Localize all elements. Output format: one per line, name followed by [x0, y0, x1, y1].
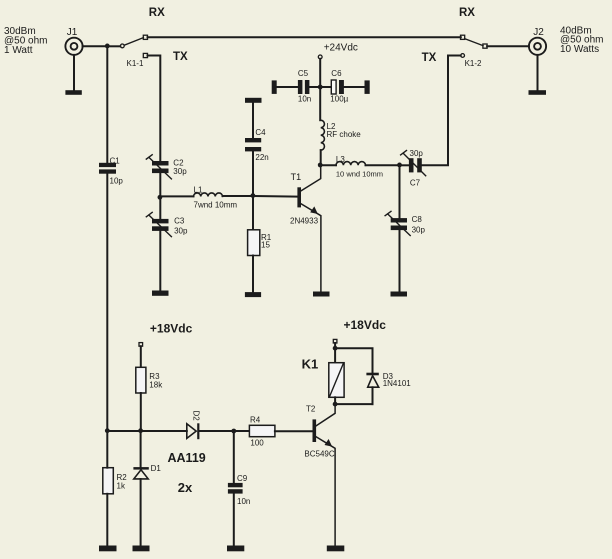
svg-text:BC549C: BC549C [304, 449, 334, 458]
switch K1-2 arm [465, 39, 483, 46]
svg-text:15: 15 [261, 240, 270, 249]
svg-text:10 Watts: 10 Watts [560, 44, 599, 55]
svg-text:1k: 1k [117, 482, 126, 491]
resistor R1 [248, 230, 260, 256]
wire node A to K1-1 common [107, 45, 120, 47]
switch K1-1 TX contact [143, 53, 147, 57]
svg-text:L3: L3 [336, 155, 345, 164]
wire node A to C1 [106, 46, 108, 163]
wire C5 to node D [309, 86, 320, 88]
svg-text:AA119: AA119 [168, 451, 206, 465]
wire node G to node H [107, 430, 140, 432]
wire node B to L1 [160, 195, 193, 197]
svg-text:C4: C4 [255, 128, 266, 137]
wire RX rail [148, 36, 461, 38]
svg-text:C7: C7 [410, 179, 421, 188]
ground under J2 [529, 90, 547, 95]
wire J2 to ground [537, 55, 539, 91]
wire node D to L2 [319, 87, 321, 120]
wire L1 to node C [223, 195, 253, 197]
node B junction [158, 195, 163, 200]
svg-text:T1: T1 [291, 172, 302, 182]
wire D2 to node I [199, 430, 233, 432]
ground above C4 [245, 98, 262, 103]
node K junction [333, 402, 338, 407]
wire R1 to ground [252, 256, 254, 293]
inductor L1 [194, 193, 223, 196]
inductor L2 [321, 120, 325, 150]
svg-text:+24Vdc: +24Vdc [324, 42, 358, 53]
svg-text:+18Vdc: +18Vdc [150, 322, 193, 336]
svg-text:J1: J1 [67, 27, 78, 38]
svg-text:RX: RX [459, 7, 475, 19]
svg-text:30p: 30p [174, 226, 188, 235]
capacitor C9 [228, 483, 243, 494]
resistor R3 [136, 367, 146, 393]
terminal bar left of C5 [272, 80, 277, 94]
ground under C9 [227, 546, 244, 552]
wire node C to R1 [252, 196, 254, 230]
wire node I to R4 [234, 430, 250, 432]
wire terminal to R3 [140, 346, 142, 367]
ground under D1 [133, 546, 150, 552]
node D junction [318, 85, 323, 90]
capacitor C1 [99, 163, 116, 174]
wire C4 to node C [252, 151, 254, 195]
svg-text:T2: T2 [306, 405, 316, 414]
wire C8 to ground [399, 230, 401, 292]
switch K1-1 common contact [120, 44, 124, 48]
svg-text:7wnd 10mm: 7wnd 10mm [194, 201, 238, 210]
+18Vdc terminal right [333, 339, 337, 343]
svg-text:C8: C8 [412, 215, 423, 224]
svg-text:C6: C6 [331, 69, 342, 78]
wire K1-2 common to J2 [487, 45, 529, 47]
svg-text:C3: C3 [174, 217, 185, 226]
switch K1-1 RX contact [143, 35, 147, 39]
svg-text:RX: RX [149, 7, 165, 19]
svg-text:10n: 10n [298, 95, 311, 104]
svg-text:1N4101: 1N4101 [383, 379, 412, 388]
wire J1 to ground [73, 55, 75, 91]
capacitor C8 (trimmer) [385, 211, 410, 235]
wire K1-1 TX contact to C2 branch [148, 56, 161, 162]
wire node C to T1 base [253, 195, 298, 198]
node E junction [318, 163, 323, 168]
svg-text:L1: L1 [194, 185, 203, 194]
resistor R4 [249, 425, 275, 436]
node A junction [105, 44, 110, 49]
wire node D to C6 [320, 86, 331, 88]
wire R2 to ground [106, 494, 108, 546]
connector J2 [529, 38, 546, 55]
svg-text:30p: 30p [410, 149, 424, 158]
wire node K to D3 [335, 403, 372, 405]
wire +24V terminal to node D [319, 59, 321, 87]
wire node J to D3 branch [335, 348, 372, 373]
wire K1 to node K [334, 397, 336, 404]
+24Vdc supply terminal [318, 55, 322, 59]
svg-text:C1: C1 [110, 157, 121, 166]
svg-text:RF choke: RF choke [327, 130, 362, 139]
wire node E to L3 [320, 164, 336, 166]
relay coil K1 [329, 363, 344, 398]
switch K1-1 arm [124, 38, 143, 46]
svg-text:100: 100 [250, 439, 264, 448]
svg-text:R4: R4 [250, 415, 261, 424]
svg-text:K1: K1 [302, 357, 319, 372]
switch K1-2 common contact [483, 44, 487, 48]
terminal bar right of C6 [365, 80, 370, 94]
J2 port annotation 40dBm @50 ohm 10 Watts [560, 25, 604, 55]
wire L3 to node F [366, 164, 400, 166]
svg-text:10 wnd 10mm: 10 wnd 10mm [336, 170, 383, 179]
svg-text:D2: D2 [192, 411, 201, 422]
wire terminal to node J [334, 343, 336, 348]
svg-text:22n: 22n [255, 153, 268, 162]
node F junction [397, 163, 402, 168]
wire L2 to node E [320, 150, 322, 165]
svg-text:18k: 18k [149, 380, 163, 389]
+18Vdc terminal left [139, 343, 143, 347]
wire node G to R2 [106, 431, 108, 468]
wire node B to C3 [159, 198, 161, 219]
wire C2 to node B [159, 173, 161, 198]
node H junction [138, 428, 143, 433]
switch K1-2 TX contact [461, 54, 465, 58]
wire node I to C9 [233, 431, 235, 483]
diode D1 [133, 467, 148, 479]
wire node H to D1 [140, 431, 142, 467]
node G junction [105, 428, 110, 433]
capacitor C7 (trimmer) [401, 151, 426, 176]
J1 port annotation 30dBm @50 ohm 1 Watt [4, 26, 48, 56]
wire node F to C7 [400, 164, 409, 166]
wire node H to D2 [141, 430, 187, 432]
svg-text:TX: TX [173, 51, 188, 63]
wire C9 to ground [233, 494, 235, 546]
svg-text:10p: 10p [110, 177, 124, 186]
resistor R2 [103, 468, 114, 494]
capacitor C4 [245, 138, 261, 151]
svg-text:C9: C9 [237, 474, 248, 483]
wire D1 to ground [140, 479, 142, 546]
svg-text:30p: 30p [412, 225, 426, 234]
svg-text:1 Watt: 1 Watt [4, 45, 33, 56]
transistor T1 [297, 165, 321, 292]
ground under J1 [65, 90, 81, 95]
wire J1 to node A [83, 45, 108, 47]
wire C6 to terminal bar [344, 86, 365, 88]
capacitor C5 [298, 80, 310, 94]
node I junction [231, 429, 236, 434]
transistor T2 [313, 404, 336, 545]
svg-text:30p: 30p [173, 167, 187, 176]
svg-text:K1-2: K1-2 [465, 59, 482, 68]
diode D3 [366, 373, 378, 388]
switch K1-2 RX contact [461, 35, 465, 39]
wire K1-2 TX contact stub [448, 55, 461, 57]
svg-text:2x: 2x [178, 480, 193, 495]
node J junction [333, 346, 338, 351]
inductor L3 [336, 162, 366, 166]
svg-text:TX: TX [422, 52, 437, 64]
wire R4 to T2 base [275, 430, 313, 432]
connector J1 [65, 38, 82, 55]
capacitor C3 (trimmer) [146, 212, 171, 236]
wire R3 to node H [140, 393, 142, 431]
wire node F to C8 [399, 165, 401, 218]
svg-text:2N4933: 2N4933 [290, 216, 319, 225]
svg-text:D1: D1 [151, 464, 162, 473]
svg-text:10n: 10n [237, 497, 250, 506]
svg-text:100µ: 100µ [330, 95, 348, 104]
wire C1 to node G [106, 174, 108, 431]
svg-text:K1-1: K1-1 [127, 59, 144, 68]
svg-text:C5: C5 [298, 69, 309, 78]
ground under R1 [245, 292, 261, 297]
capacitor C2 (trimmer) [146, 155, 171, 179]
wire ground to C4 [252, 103, 254, 138]
wire D3 to node K rail [372, 387, 374, 404]
svg-text:+18Vdc: +18Vdc [344, 318, 387, 332]
ground under T1 emitter [313, 292, 330, 297]
diode D2 [187, 423, 200, 439]
node C junction [251, 193, 256, 198]
wire node J to relay K1 [334, 348, 336, 363]
ground under C8 [391, 292, 408, 297]
capacitor C6 (electrolytic) [331, 80, 344, 94]
ground under C3 [152, 291, 169, 296]
svg-text:J2: J2 [533, 27, 544, 38]
wire C7 to K1-2 TX branch [422, 56, 448, 166]
wire C3 to ground [159, 231, 161, 291]
wire bar to C5 [277, 86, 298, 88]
ground under R2 [99, 546, 117, 552]
ground under T2 emitter [327, 546, 345, 552]
